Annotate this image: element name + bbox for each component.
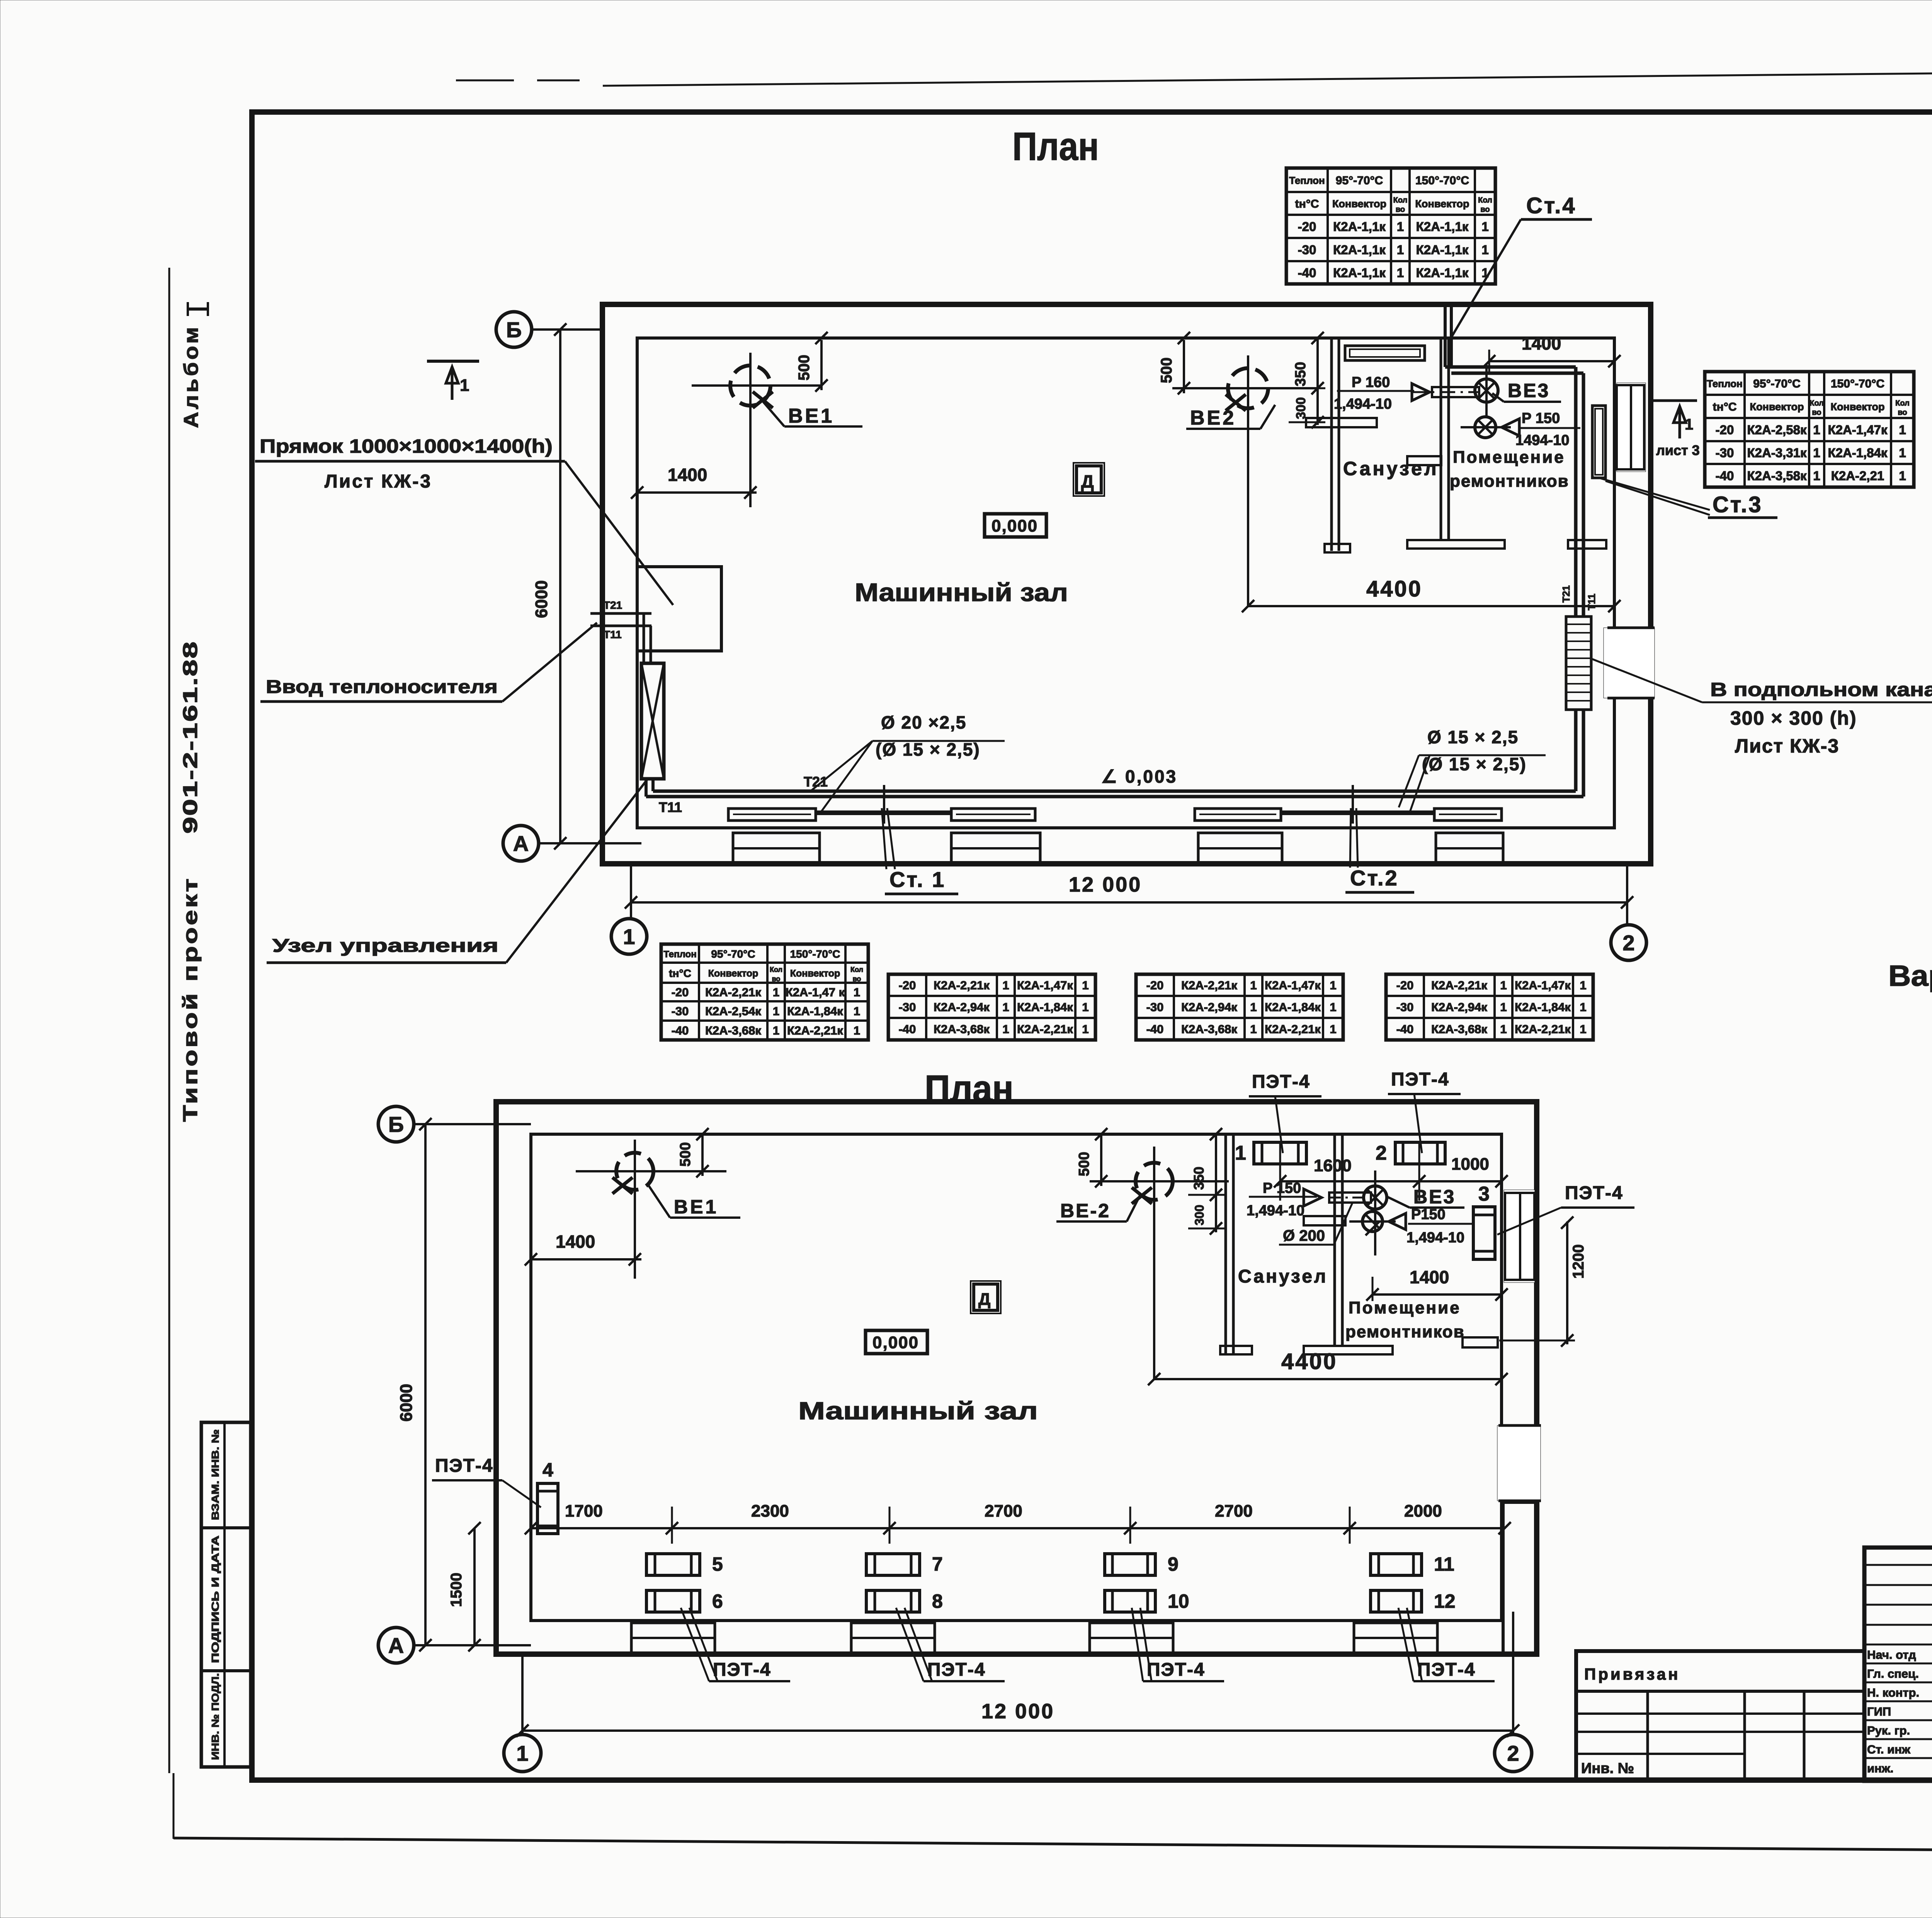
svg-text:К2А-1,1к: К2А-1,1к [1416,265,1469,280]
svg-text:ПЭТ-4: ПЭТ-4 [435,1456,493,1476]
svg-text:Нач. отд: Нач. отд [1867,1648,1916,1661]
svg-text:11: 11 [1434,1553,1454,1575]
svg-text:1: 1 [1002,1001,1009,1014]
dimension 500 ВЕ2 lower [1100,1136,1102,1186]
svg-text:500: 500 [1076,1152,1092,1176]
svg-text:1: 1 [1481,265,1488,280]
svg-text:Санузел: Санузел [1238,1266,1328,1287]
dimension 1600 1000 lower [1280,1180,1502,1182]
svg-text:1: 1 [1082,1023,1088,1036]
svg-text:1000: 1000 [1451,1155,1489,1174]
electric heater 4 [537,1483,558,1534]
svg-text:(Ø 15 × 2,5): (Ø 15 × 2,5) [876,739,980,759]
dimension 500 at ВЕ1 [820,340,823,390]
sanuzel left wall [1330,338,1333,551]
svg-text:2000: 2000 [1404,1502,1442,1520]
svg-text:4400: 4400 [1366,576,1422,601]
heat inlet pipes Т21 Т11 [590,612,651,615]
svg-text:1494-10: 1494-10 [1515,432,1569,448]
fan ВЕ3 circle [1475,379,1498,402]
svg-text:Теплон: Теплон [1289,175,1325,186]
svg-text:-30: -30 [899,1001,916,1014]
dimension 1400 lower-left [531,1258,641,1261]
convector table D below plan [1423,974,1425,1040]
svg-text:2700: 2700 [985,1502,1022,1520]
svg-text:3: 3 [1478,1183,1490,1205]
svg-text:6000: 6000 [397,1384,416,1422]
svg-text:-40: -40 [672,1024,689,1037]
svg-text:К2А-1,1к: К2А-1,1к [1333,265,1386,280]
svg-text:ПЭТ-4: ПЭТ-4 [1147,1660,1205,1680]
dimension 4400 lower [1154,1378,1502,1380]
svg-text:К2А-3,68к: К2А-3,68к [1431,1023,1487,1036]
svg-text:ВЗАМ. ИНВ. №: ВЗАМ. ИНВ. № [209,1429,221,1520]
dimension 500 at ВЕ2 [1183,340,1185,393]
svg-text:Теплон: Теплон [1707,378,1743,389]
dimension 350 300 sanuzel [1316,339,1319,425]
axis circle 1 upper [611,919,647,954]
svg-text:1: 1 [1250,979,1257,992]
left stamp side table [201,1422,251,1767]
svg-text:-40: -40 [899,1023,916,1036]
svg-text:1: 1 [460,376,469,395]
lower plan right wall bottom pilaster [1503,1502,1537,1654]
dimension row 1700 2300 2700 2700 2000 [531,1527,1505,1529]
svg-text:лист 3: лист 3 [1656,442,1700,458]
pit square Прямок [637,567,721,651]
svg-text:К2А-1,1к: К2А-1,1к [1416,243,1469,257]
svg-text:Привязан: Привязан [1584,1665,1680,1683]
wall base bar right lower [1463,1337,1498,1347]
svg-text:Конвектор: Конвектор [790,968,840,979]
svg-text:Рук. гр.: Рук. гр. [1867,1724,1910,1737]
svg-text:Инв. №: Инв. № [1581,1760,1634,1777]
svg-text:1: 1 [1235,1142,1246,1164]
svg-text:Кол: Кол [850,966,863,973]
svg-text:1: 1 [1082,1001,1088,1014]
svg-text:-30: -30 [672,1004,689,1018]
svg-text:К2А-2,94к: К2А-2,94к [1431,1001,1487,1014]
svg-text:2700: 2700 [1215,1502,1253,1520]
level mark 0,000 upper [985,514,1046,537]
svg-text:К2А-2,94к: К2А-2,94к [934,1001,990,1014]
door mark Д lower [974,1284,998,1310]
svg-text:2: 2 [1376,1142,1387,1164]
svg-text:95°-70°С: 95°-70°С [1336,174,1383,187]
svg-text:-20: -20 [1716,423,1734,437]
svg-text:1: 1 [1397,243,1404,257]
sheet border frame [252,112,1932,1780]
svg-text:350: 350 [1293,362,1309,386]
svg-text:во: во [1898,408,1907,417]
svg-text:Р 150: Р 150 [1263,1180,1301,1196]
svg-text:(Ø 15 × 2,5): (Ø 15 × 2,5) [1422,754,1527,774]
convector table B below plan [925,974,927,1040]
svg-text:7: 7 [932,1553,943,1575]
axis circle А upper [503,826,539,861]
svg-text:500: 500 [796,355,813,381]
svg-text:1: 1 [1397,265,1404,280]
svg-text:Кол: Кол [1393,196,1408,205]
svg-text:0,000: 0,000 [872,1333,919,1352]
svg-text:1400: 1400 [556,1232,595,1252]
svg-text:К2А-2,21к: К2А-2,21к [934,979,990,992]
svg-text:-30: -30 [1396,1001,1414,1014]
svg-text:ПЭТ-4: ПЭТ-4 [1252,1072,1310,1092]
svg-text:95°-70°С: 95°-70°С [1753,377,1800,390]
svg-text:ВЕ3: ВЕ3 [1413,1186,1456,1208]
svg-text:К2А-3,68к: К2А-3,68к [1181,1023,1237,1036]
svg-text:500: 500 [677,1142,694,1167]
dimension 500 ВЕ1 lower [701,1136,704,1176]
svg-text:Кол: Кол [1895,399,1910,408]
svg-text:1: 1 [1500,1023,1507,1036]
svg-text:К2А-3,58к: К2А-3,58к [1747,469,1807,483]
riser pipes T21 T11 right [1574,367,1578,617]
svg-text:Ø 20 ×2,5: Ø 20 ×2,5 [881,712,966,732]
dimension 6000 upper [559,330,561,843]
svg-text:1: 1 [1580,1023,1586,1036]
convector link pipes [816,810,951,815]
upper plan right wall door opening [1604,628,1655,698]
svg-text:К2А-1,84к: К2А-1,84к [1828,445,1888,460]
axis line 1 upper [630,864,632,919]
svg-text:ВЕ1: ВЕ1 [674,1196,718,1218]
svg-text:Вариант с электроотоплением: Вариант с электроотоплением [1888,960,1932,992]
ventilation deflector ВЕ1 lower [576,1170,726,1172]
svg-text:Т11: Т11 [1586,594,1597,610]
electric heaters 5-12 [646,1554,700,1575]
svg-text:500: 500 [1158,357,1175,383]
fan P150 lower [1475,417,1496,438]
svg-text:инж.: инж. [1867,1762,1893,1775]
svg-text:1: 1 [773,1024,779,1037]
svg-text:К2А-1,47 к: К2А-1,47 к [786,985,845,999]
svg-text:1400: 1400 [1410,1267,1449,1287]
svg-text:Лист КЖ-3: Лист КЖ-3 [325,471,432,492]
svg-text:во: во [853,975,861,983]
svg-text:К2А-3,31к: К2А-3,31к [1747,445,1807,460]
svg-text:350: 350 [1191,1167,1207,1190]
svg-text:2: 2 [1622,931,1634,955]
svg-text:1: 1 [1813,469,1820,483]
lower plan right wall niche [1504,1190,1535,1283]
svg-text:ПЭТ-4: ПЭТ-4 [1391,1069,1449,1090]
axis line 2 upper [1626,864,1628,925]
level mark 0,000 lower [866,1330,927,1354]
duct and fans lower [1304,1189,1321,1206]
svg-text:Д: Д [1081,471,1094,491]
svg-text:5: 5 [712,1553,723,1575]
svg-text:К2А-2,54к: К2А-2,54к [705,1004,761,1018]
convector K2A row 3 [1195,809,1281,821]
sanuzel left wall lower [1225,1134,1227,1354]
svg-text:1: 1 [1899,445,1906,460]
dimension 1400 rem room lower [1372,1293,1502,1296]
svg-text:-20: -20 [899,979,916,992]
svg-text:Ст.2: Ст.2 [1350,866,1399,890]
svg-text:Р 160: Р 160 [1352,374,1390,391]
svg-text:Конвектор: Конвектор [1332,198,1386,210]
svg-text:1: 1 [1685,416,1693,433]
dimension 6000 lower [424,1124,427,1645]
dimension 12000 lower [522,1729,1513,1732]
svg-text:К2А-2,21к: К2А-2,21к [1515,1023,1571,1036]
svg-text:1: 1 [1250,1001,1257,1014]
svg-text:К2А-2,94к: К2А-2,94к [1181,1001,1237,1014]
attachment table Привязан [1576,1651,1864,1781]
svg-text:К2А-2,21: К2А-2,21 [1831,469,1884,483]
svg-text:tн°С: tн°С [1713,401,1737,413]
svg-text:1500: 1500 [448,1573,465,1607]
svg-text:-30: -30 [1716,445,1734,460]
axis line 1 lower [521,1654,524,1735]
convector K2A row 4 [1434,809,1502,821]
svg-text:К2А-1,84к: К2А-1,84к [787,1004,843,1018]
remontnik door wall stub [1407,456,1441,465]
svg-text:6000: 6000 [532,580,551,618]
svg-text:1: 1 [773,985,779,999]
svg-text:К2А-1,47к: К2А-1,47к [1017,979,1073,992]
svg-text:Т21: Т21 [1560,585,1572,603]
axis circle Б upper [496,312,532,347]
svg-text:4: 4 [543,1459,553,1481]
svg-text:8: 8 [932,1590,943,1612]
svg-text:1,494-10: 1,494-10 [1247,1203,1304,1219]
axis circle 2 upper [1611,925,1646,960]
svg-text:12 000: 12 000 [981,1700,1054,1723]
svg-text:Прямок 1000×1000×1400(h): Прямок 1000×1000×1400(h) [260,435,553,457]
svg-text:1: 1 [854,985,860,999]
upper plan right wall niche [1617,383,1646,472]
svg-text:во: во [1396,206,1405,214]
svg-text:1: 1 [1330,1001,1336,1014]
svg-text:К2А-1,84к: К2А-1,84к [1017,1001,1073,1014]
svg-text:1: 1 [1002,979,1009,992]
svg-text:-30: -30 [1298,243,1316,257]
svg-text:150°-70°С: 150°-70°С [1415,174,1469,187]
svg-text:-40: -40 [1146,1023,1164,1036]
svg-text:Гл. спец.: Гл. спец. [1867,1667,1919,1680]
partition wall lower [1333,1134,1336,1346]
svg-text:0,000: 0,000 [992,516,1038,535]
label В подпольном канале [1591,659,1702,702]
svg-text:1: 1 [1500,1001,1507,1014]
door mark Д upper [1077,466,1101,493]
svg-text:4400: 4400 [1281,1349,1337,1374]
svg-text:-40: -40 [1298,265,1316,280]
svg-text:300: 300 [1294,397,1308,419]
svg-text:1: 1 [1002,1023,1009,1036]
svg-text:1,494-10: 1,494-10 [1406,1230,1464,1246]
dimension 350 300 lower [1215,1136,1217,1232]
svg-text:во: во [772,975,781,983]
svg-text:Ст.4: Ст.4 [1526,193,1577,218]
svg-text:-40: -40 [1716,469,1734,483]
vent grille in sanuzel [1345,346,1425,360]
svg-text:ремонтников: ремонтников [1345,1322,1465,1341]
svg-text:ВЕ1: ВЕ1 [788,405,834,427]
svg-text:Помещение: Помещение [1453,448,1565,467]
svg-text:150°-70°С: 150°-70°С [1831,377,1884,390]
svg-text:300 × 300 (h): 300 × 300 (h) [1730,707,1857,729]
svg-text:1: 1 [1397,219,1404,234]
svg-text:ПЭТ-4: ПЭТ-4 [927,1660,986,1680]
sanuzel door stub lower [1304,1216,1345,1225]
svg-text:Кол: Кол [1810,399,1824,408]
svg-text:Альбом: Альбом [180,324,202,428]
svg-text:Кол: Кол [1478,196,1492,205]
upper plan inner wall lines [637,338,1614,828]
lower plan inner wall lines [531,1134,1502,1621]
electric heater 2 [1395,1142,1445,1164]
dimension 1400 upper-left [637,491,757,494]
svg-text:во: во [1480,206,1490,214]
convector K2A row 1 [728,809,816,821]
svg-text:tн°С: tн°С [669,967,691,979]
svg-text:во: во [1812,408,1821,417]
axis circle Б lower [378,1106,414,1142]
svg-text:-20: -20 [1298,219,1316,234]
svg-text:Конвектор: Конвектор [1750,401,1804,413]
svg-text:К2А-2,21к: К2А-2,21к [705,985,761,999]
electric heater 3 [1473,1207,1495,1259]
svg-text:Ст.3: Ст.3 [1713,492,1763,517]
svg-text:Т11: Т11 [659,799,682,815]
svg-text:1: 1 [1899,469,1906,483]
convector table right side [1743,372,1746,487]
svg-text:1: 1 [1580,1001,1586,1014]
svg-text:1: 1 [623,924,635,949]
svg-text:Ø 15 × 2,5: Ø 15 × 2,5 [1427,727,1519,747]
svg-text:1: 1 [1330,1023,1336,1036]
left thin margin line [168,268,170,1773]
svg-text:К2А-2,21к: К2А-2,21к [787,1024,843,1037]
svg-text:Н. контр.: Н. контр. [1867,1686,1919,1699]
svg-text:Б: Б [506,318,522,342]
svg-text:9: 9 [1168,1553,1179,1575]
svg-text:ВЕ-2: ВЕ-2 [1060,1200,1111,1221]
svg-text:Кол: Кол [770,966,782,973]
svg-text:1600: 1600 [1314,1156,1352,1175]
svg-text:К2А-1,1к: К2А-1,1к [1416,219,1469,234]
svg-text:1: 1 [1580,979,1586,992]
section arrow 1 upper left [427,360,479,363]
dimension 1500 lower [473,1528,476,1645]
pipe junction tick Ст.2 [1352,785,1354,824]
svg-text:1: 1 [773,1004,779,1018]
svg-text:Санузел: Санузел [1343,458,1439,479]
axis circle 2 lower [1495,1735,1532,1772]
svg-text:901-2-161.88: 901-2-161.88 [179,640,202,834]
fan lower2 [1362,1211,1383,1232]
svg-text:План: План [1012,124,1099,168]
svg-text:1: 1 [854,1024,860,1037]
svg-text:1: 1 [1899,423,1906,437]
main heating pipes T21 T11 along bottom [645,779,648,797]
svg-text:Ø 200: Ø 200 [1283,1227,1325,1244]
svg-text:К2А-1,1к: К2А-1,1к [1333,243,1386,257]
foundation pilasters lower [631,1623,715,1653]
svg-text:Ст. инж: Ст. инж [1867,1743,1911,1756]
svg-text:Машинный зал: Машинный зал [798,1397,1038,1425]
svg-text:Д: Д [978,1290,990,1309]
partition wall sanuzel-remontnik [1440,338,1442,540]
svg-text:А: А [388,1633,404,1658]
svg-text:-20: -20 [1396,979,1414,992]
svg-text:300: 300 [1192,1205,1206,1225]
label Ст.3 with leader [1599,478,1710,510]
lower plan outer walls [496,1102,1537,1654]
svg-text:95°-70°С: 95°-70°С [711,948,755,960]
stack pipe Ст.4 vertical [1444,305,1447,367]
svg-text:12 000: 12 000 [1069,873,1142,896]
svg-text:2300: 2300 [751,1502,789,1520]
svg-text:К2А-1,84к: К2А-1,84к [1515,1001,1571,1014]
axis circle 1 lower [504,1735,541,1772]
dimension 1400 top right [1489,360,1614,362]
svg-text:ГИП: ГИП [1867,1705,1891,1718]
svg-text:Конвектор: Конвектор [1831,401,1885,413]
svg-text:12: 12 [1434,1590,1456,1612]
svg-text:ПЭТ-4: ПЭТ-4 [1565,1183,1623,1203]
svg-text:К2А-3,68к: К2А-3,68к [705,1024,761,1037]
svg-text:1700: 1700 [565,1502,603,1520]
svg-text:1: 1 [854,1004,860,1018]
svg-text:К2А-1,84к: К2А-1,84к [1265,1001,1321,1014]
axis line 2 lower [1512,1612,1514,1735]
svg-text:10: 10 [1168,1590,1189,1612]
svg-text:К2А-1,47к: К2А-1,47к [1515,979,1571,992]
svg-text:Р 150: Р 150 [1522,410,1560,426]
svg-text:ПЭТ-4: ПЭТ-4 [713,1660,771,1680]
svg-text:1400: 1400 [668,465,707,485]
paper bottom edge line [173,1838,1932,1855]
svg-text:1: 1 [1500,979,1507,992]
svg-text:1: 1 [1813,445,1820,460]
svg-text:1: 1 [516,1741,528,1765]
svg-text:Типовой проект: Типовой проект [179,877,202,1122]
svg-text:Б: Б [388,1112,404,1137]
convector table top middle [1327,168,1329,284]
svg-text:К2А-2,21к: К2А-2,21к [1265,1023,1321,1036]
section arrow 1 лист 3 right [1652,399,1697,402]
svg-text:Лист КЖ-3: Лист КЖ-3 [1735,735,1839,757]
paper top edge line [603,67,1932,86]
svg-text:К2А-2,21к: К2А-2,21к [1181,979,1237,992]
svg-text:6: 6 [712,1590,723,1612]
svg-text:-20: -20 [1146,979,1164,992]
svg-text:ИНВ. № ПОДЛ.: ИНВ. № ПОДЛ. [209,1673,221,1760]
svg-text:К2А-2,58к: К2А-2,58к [1747,423,1807,437]
svg-text:Т11: Т11 [604,629,622,640]
duct Ø200 with centerline [1432,387,1479,397]
svg-text:Машинный зал: Машинный зал [855,578,1068,606]
svg-text:-40: -40 [1396,1023,1414,1036]
svg-text:150°-70°С: 150°-70°С [790,948,840,960]
dimension 4400 upper [1248,605,1614,607]
foundation pilasters below wall [733,833,820,864]
svg-text:-20: -20 [672,985,689,999]
svg-text:К2А-1,1к: К2А-1,1к [1333,219,1386,234]
svg-text:Помещение: Помещение [1349,1298,1461,1317]
svg-text:ВЕ2: ВЕ2 [1190,407,1236,429]
stack pipes horizontal to risers [1445,365,1576,369]
svg-text:Т21: Т21 [604,599,622,611]
ventilation deflector ВЕ2 lower [1090,1180,1229,1182]
svg-text:К2А-1,47к: К2А-1,47к [1265,979,1321,992]
svg-text:Конвектор: Конвектор [708,968,759,979]
